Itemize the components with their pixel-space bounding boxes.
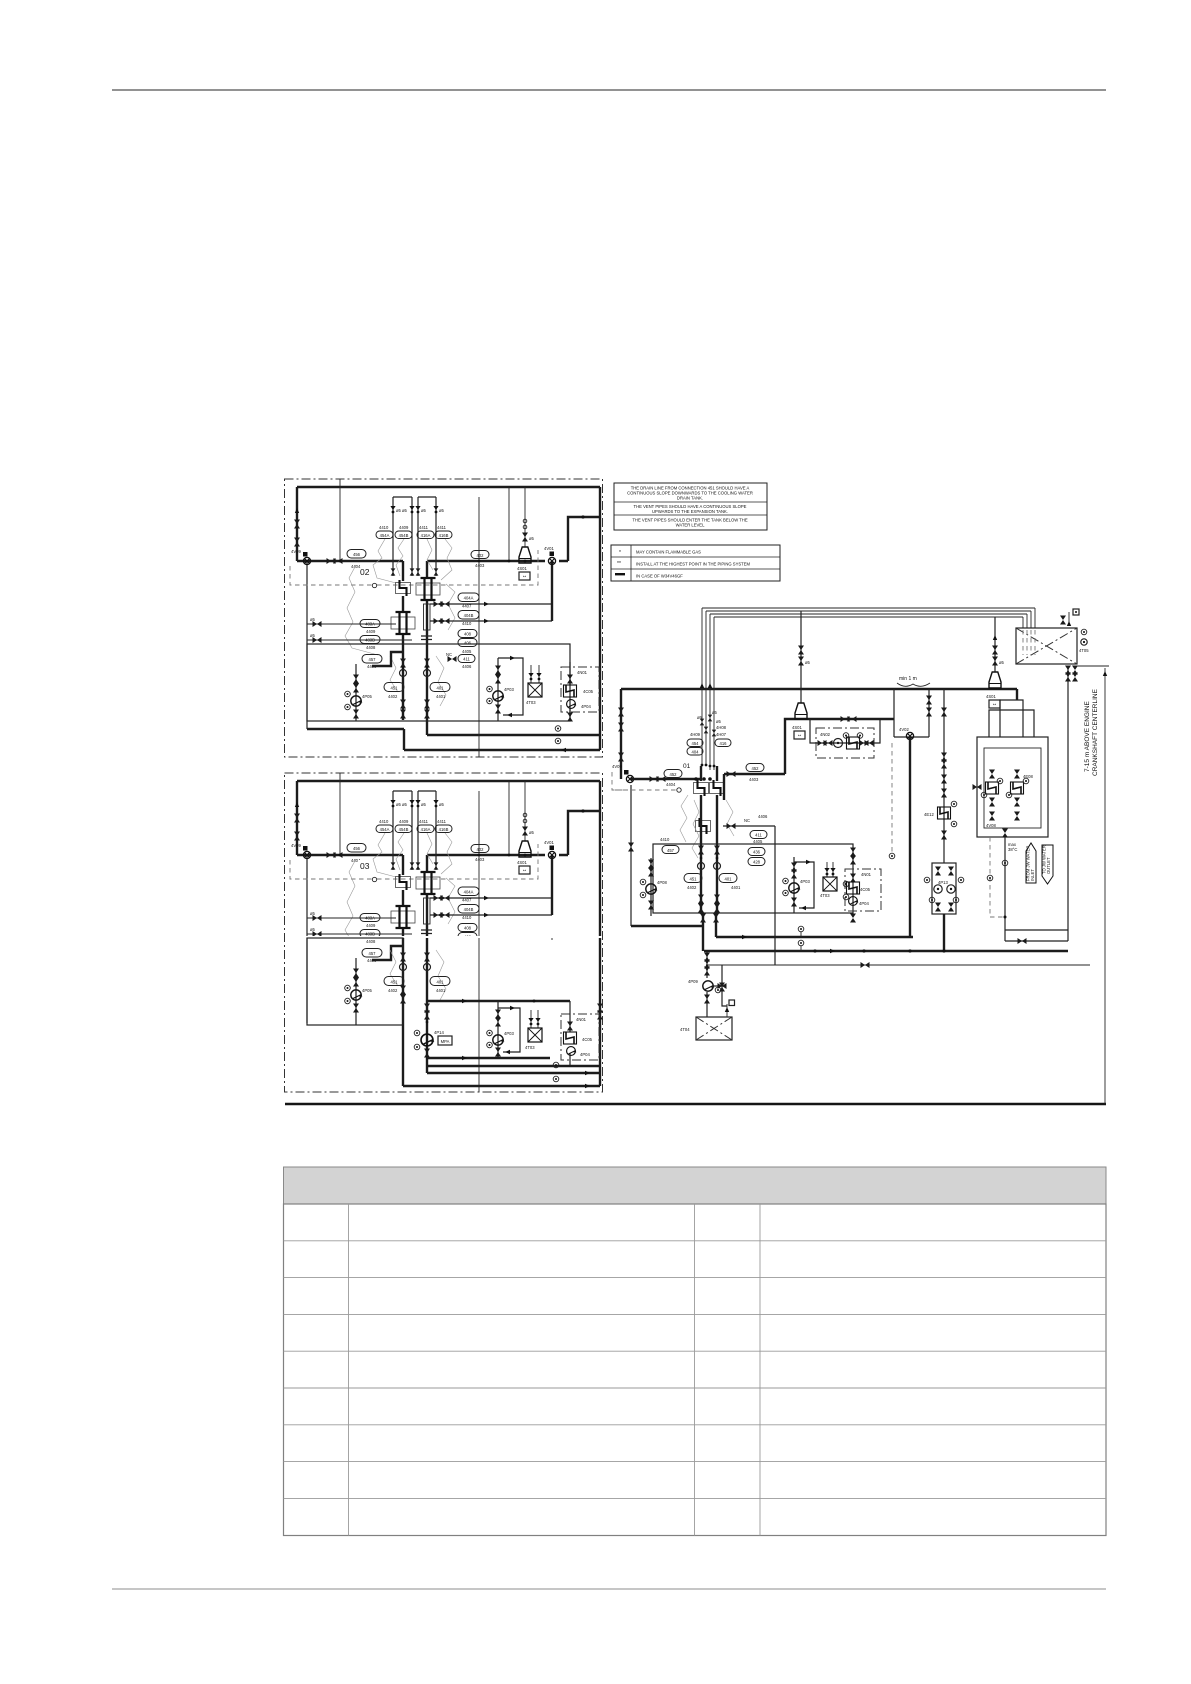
svg-text:452: 452 xyxy=(752,766,760,771)
engine 01 risers to collector xyxy=(703,913,716,951)
engine 01 left return xyxy=(630,785,632,926)
vent bundle drops into tank xyxy=(1023,608,1035,628)
bottom collector lines xyxy=(716,936,913,938)
svg-text:4V09: 4V09 xyxy=(612,764,622,769)
drop from balance vessel xyxy=(909,737,911,937)
riser to deaerator xyxy=(785,719,894,774)
svg-text:4H07: 4H07 xyxy=(716,732,727,737)
svg-text:*: * xyxy=(619,550,621,556)
dashed option line engine 01 xyxy=(615,789,676,791)
svg-text:4S01: 4S01 xyxy=(792,725,802,730)
balance vessel 4V02 xyxy=(894,689,929,737)
labels 436/428 engine 01 xyxy=(748,848,765,856)
module 03 thin top taps xyxy=(479,938,552,1092)
svg-text:4P14: 4P14 xyxy=(434,1030,444,1035)
table body xyxy=(284,1204,1107,1536)
svg-text:ø5: ø5 xyxy=(999,660,1005,665)
left drop to 4V09 xyxy=(620,689,622,779)
svg-text:4V08: 4V08 xyxy=(986,823,996,828)
engine module 02 border xyxy=(285,479,603,757)
engine 01 pump bay xyxy=(653,844,853,913)
stand-by pump 4P08 xyxy=(650,858,652,916)
pump unit 4P13 xyxy=(932,863,956,914)
svg-text:4406: 4406 xyxy=(758,814,768,819)
svg-text:UPWARDS TO THE EXPANSION TANK.: UPWARDS TO THE EXPANSION TANK. xyxy=(652,509,728,514)
label 452 xyxy=(664,770,682,778)
svg-text:4N01: 4N01 xyxy=(576,1017,587,1022)
svg-text:4405: 4405 xyxy=(753,839,763,844)
module 03 drain tank 4T03 xyxy=(531,1010,538,1028)
svg-text:4P04: 4P04 xyxy=(580,1052,590,1057)
svg-text:4402: 4402 xyxy=(687,885,697,890)
svg-text:436: 436 xyxy=(753,850,761,855)
svg-text:4401: 4401 xyxy=(731,885,741,890)
svg-text:4401: 4401 xyxy=(436,988,446,993)
table column lines xyxy=(349,1204,761,1536)
svg-text:4T03: 4T03 xyxy=(525,1045,535,1050)
table row lines xyxy=(284,1241,1107,1499)
figure bottom rule (thick) xyxy=(285,1103,1106,1106)
svg-text:MAY CONTAIN FLAMMABLE GAS: MAY CONTAIN FLAMMABLE GAS xyxy=(636,550,701,555)
engine 01 outlet line 452 xyxy=(724,773,785,775)
svg-text:404: 404 xyxy=(692,750,700,755)
svg-text:4N02: 4N02 xyxy=(820,732,831,737)
svg-text:4410: 4410 xyxy=(660,837,670,842)
svg-text:428: 428 xyxy=(753,860,761,865)
svg-text:INLET: INLET xyxy=(1030,869,1035,881)
svg-text:416: 416 xyxy=(720,741,728,746)
svg-text:4T04: 4T04 xyxy=(680,1027,690,1032)
module 03 preheater pump 4P03 xyxy=(498,1001,520,1058)
module 03 engine driven pump 4P14 xyxy=(424,1004,430,1013)
expansion tank 4T05 xyxy=(1016,628,1077,664)
right side drop of engine 01 xyxy=(774,826,776,965)
svg-text:4V02: 4V02 xyxy=(899,727,909,732)
main header line xyxy=(621,688,1017,690)
central cooler branch xyxy=(943,689,945,863)
engine 01 preheating unit 4N01 xyxy=(845,869,881,911)
module 03 label 457 xyxy=(362,949,382,958)
svg-text:4P09: 4P09 xyxy=(688,979,698,984)
squiggles engine 01 xyxy=(680,795,688,842)
svg-text:401: 401 xyxy=(725,877,733,882)
svg-text:min 1 m: min 1 m xyxy=(899,676,917,682)
drain header xyxy=(706,964,1090,966)
module 03 bay top line xyxy=(427,1000,570,1002)
collector gauges xyxy=(800,932,802,951)
banner: to jacket water outlet xyxy=(1042,845,1053,884)
module 03 link to pump bay xyxy=(372,946,403,960)
svg-text:452: 452 xyxy=(670,772,678,777)
deaerator 4S01 (engine 01) xyxy=(800,611,802,703)
module 03 pump bay box xyxy=(307,938,403,1025)
preheating unit 4N02 xyxy=(816,728,874,758)
engine 01 inlet header xyxy=(630,778,700,780)
svg-text:451: 451 xyxy=(391,980,399,985)
deaerator 4S01 (system) xyxy=(994,617,996,672)
cooler unit 4E08 xyxy=(1016,689,1018,700)
module 03 lower collectors xyxy=(403,1058,600,1086)
module 03 engine number overlay xyxy=(358,860,372,871)
svg-text:DRAIN TANK.: DRAIN TANK. xyxy=(677,496,703,501)
svg-text:4N01: 4N01 xyxy=(861,872,872,877)
drain pump 4P09 xyxy=(706,951,708,978)
svg-text:38°C: 38°C xyxy=(1008,847,1017,852)
svg-text:4T03: 4T03 xyxy=(820,893,830,898)
table header band xyxy=(284,1167,1107,1204)
svg-text:**: ** xyxy=(617,561,621,567)
engine 01 junction dots on header xyxy=(694,777,698,781)
svg-text:IN CASE OF W34V46GF: IN CASE OF W34V46GF xyxy=(636,574,683,579)
svg-text:01: 01 xyxy=(683,763,691,770)
engine module 02 xyxy=(290,479,600,757)
svg-text:4P04: 4P04 xyxy=(859,901,869,906)
top header rule xyxy=(112,89,1106,91)
footer rule xyxy=(112,1588,1106,1590)
svg-text:457: 457 xyxy=(667,848,675,853)
svg-text:4E12: 4E12 xyxy=(924,812,934,817)
dimension line to crankshaft centerline xyxy=(1104,668,1106,1104)
svg-text:4C05: 4C05 xyxy=(582,1037,593,1042)
svg-text:4P05: 4P05 xyxy=(362,988,372,993)
svg-text:WATER LEVEL: WATER LEVEL xyxy=(676,523,706,528)
svg-text:451: 451 xyxy=(690,877,698,882)
svg-text:MPA: MPA xyxy=(441,1039,450,1044)
svg-text:4P03: 4P03 xyxy=(800,879,810,884)
svg-text:4403: 4403 xyxy=(749,777,759,782)
svg-text:4T05: 4T05 xyxy=(1079,648,1089,653)
svg-text:ø5: ø5 xyxy=(716,719,722,724)
svg-text:411: 411 xyxy=(755,833,762,838)
svg-text:4P03: 4P03 xyxy=(504,1031,514,1036)
parts table xyxy=(284,1167,1107,1536)
engine 01 preheater pump 4P03 xyxy=(794,857,814,913)
svg-text:OUTLET: OUTLET xyxy=(1046,857,1051,874)
module 03 riser fittings xyxy=(400,953,406,962)
legend table xyxy=(611,545,780,581)
right return riser xyxy=(1067,666,1069,941)
svg-text:4H08: 4H08 xyxy=(716,725,727,730)
svg-text:CRANKSHAFT CENTERLINE: CRANKSHAFT CENTERLINE xyxy=(1092,688,1099,776)
svg-text:03: 03 xyxy=(360,861,370,871)
module 03 stand-by pump 4P05 xyxy=(355,958,357,1025)
svg-text:**: ** xyxy=(993,703,997,708)
connections 451 / 401 engine 01 xyxy=(684,874,702,883)
drain line 411 engine 01 xyxy=(723,825,775,827)
svg-text:7-15 m ABOVE ENGINE: 7-15 m ABOVE ENGINE xyxy=(1084,701,1091,772)
engine 01 thermostatic valves xyxy=(694,780,709,796)
svg-text:457: 457 xyxy=(369,951,377,956)
svg-text:4P08: 4P08 xyxy=(657,880,667,885)
engine 01 riser fittings xyxy=(698,846,704,855)
banner: from jacket water inlet xyxy=(1026,843,1036,883)
svg-text:4P13: 4P13 xyxy=(938,880,948,885)
sludge tank 4T04 xyxy=(696,1017,732,1040)
module 03 right riser valves xyxy=(597,1004,603,1013)
svg-text:4402: 4402 xyxy=(388,988,398,993)
svg-text:ø5: ø5 xyxy=(805,660,811,665)
svg-text:4S01: 4S01 xyxy=(986,694,996,699)
vent bundle horizontal runs xyxy=(702,608,1035,617)
module 03 capillaries xyxy=(390,950,398,986)
module 03 connections 451 / 401 xyxy=(384,977,404,986)
notes box xyxy=(614,483,767,530)
module 03 preheating unit 4N01 xyxy=(561,1014,599,1060)
svg-text:INSTALL AT THE HIGHEST POINT I: INSTALL AT THE HIGHEST POINT IN THE PIPI… xyxy=(636,562,751,567)
vent bundle risers xyxy=(702,608,714,770)
svg-text:401: 401 xyxy=(437,980,445,985)
svg-text:**: ** xyxy=(798,734,802,739)
svg-text:4H09: 4H09 xyxy=(690,732,701,737)
heater 4E12 xyxy=(938,807,951,819)
engine 01 drain tank 4T03 xyxy=(827,862,833,877)
svg-text:ø5: ø5 xyxy=(712,710,718,715)
module 03 left return xyxy=(306,938,308,1023)
svg-text:454: 454 xyxy=(692,741,700,746)
svg-text:4408: 4408 xyxy=(366,939,376,944)
svg-text:4404: 4404 xyxy=(666,782,676,787)
svg-text:NC: NC xyxy=(744,818,750,823)
engine module 03 border xyxy=(285,773,603,1092)
module 03 risers xyxy=(403,938,600,1086)
svg-text:4C05: 4C05 xyxy=(860,887,871,892)
